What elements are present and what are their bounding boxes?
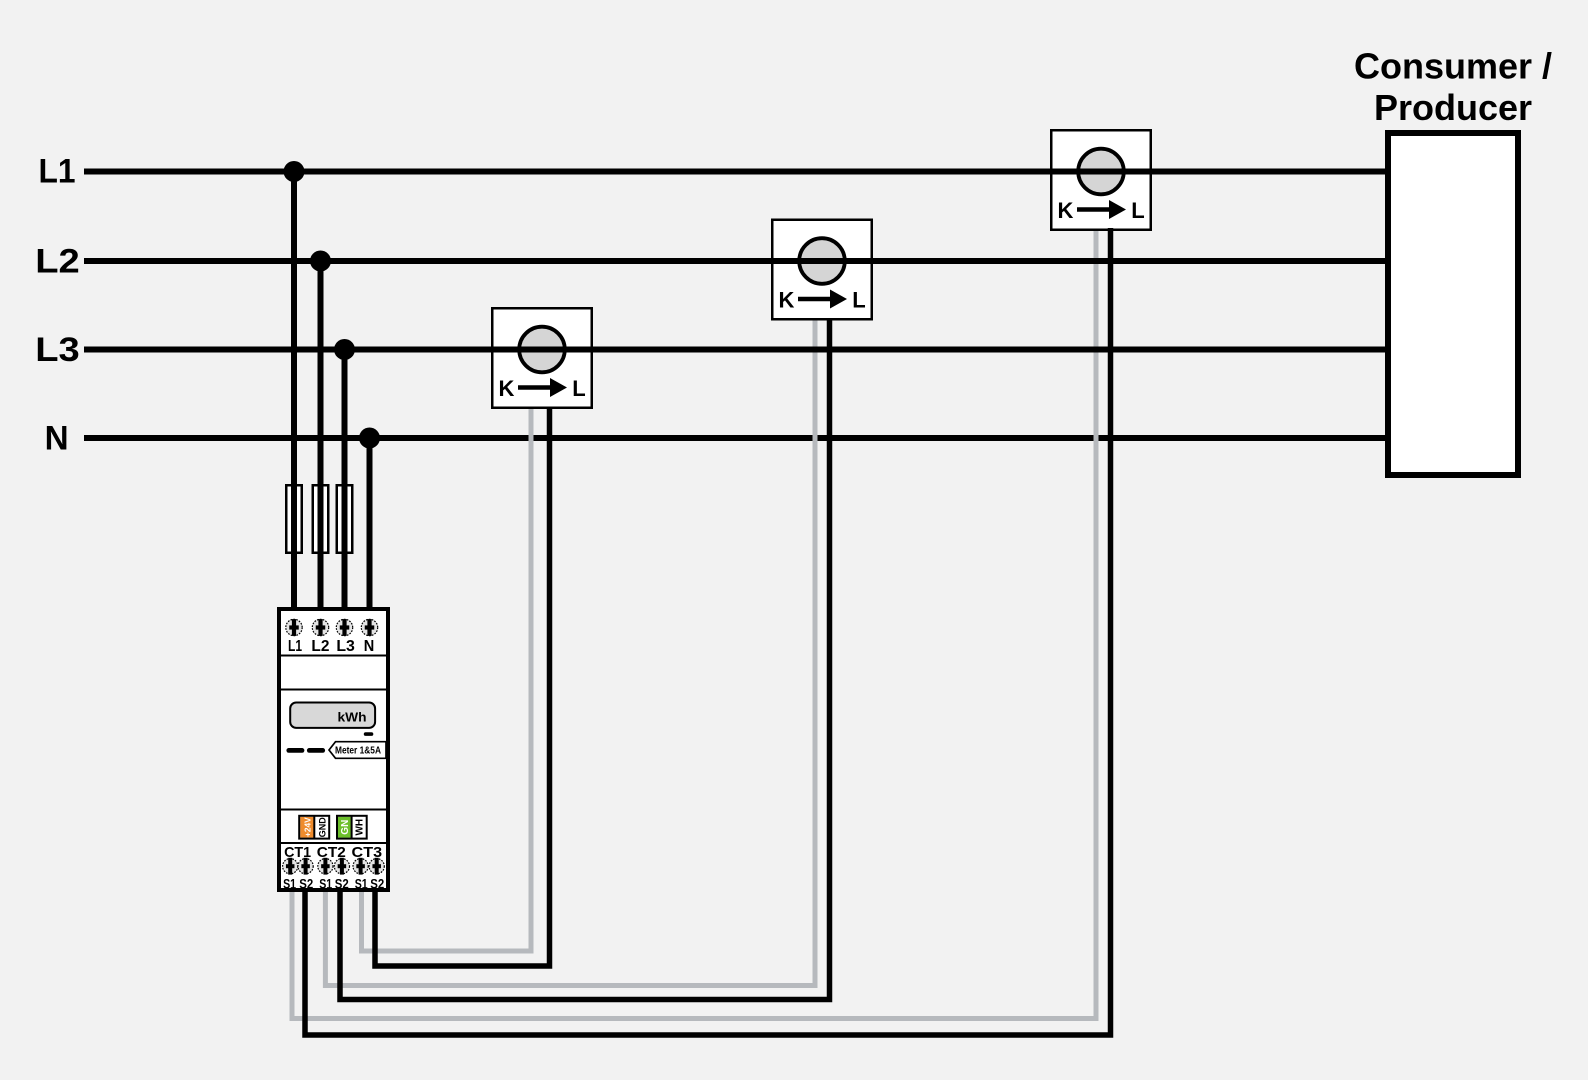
- svg-text:S1: S1: [283, 876, 296, 892]
- terminal L2 screw: [312, 619, 328, 636]
- meter divider 2: [281, 689, 388, 691]
- terminal CT1 S2 screw: [298, 858, 313, 875]
- svg-text:Consumer /: Consumer /: [1354, 46, 1552, 87]
- wire N: [84, 435, 1390, 441]
- svg-text:WH: WH: [355, 819, 366, 836]
- svg-text:S2: S2: [370, 876, 384, 892]
- svg-text:L1: L1: [39, 153, 76, 191]
- svg-text:L2: L2: [311, 638, 329, 655]
- CT1 K-L polarity marking: [1058, 198, 1145, 223]
- terminal CT2 S1 screw: [318, 858, 333, 875]
- kWh display: [290, 703, 375, 728]
- wire CT2 S2 secondary (black): [340, 318, 830, 1000]
- svg-text:N: N: [45, 420, 69, 458]
- Meter 1&5A flag: [329, 742, 386, 759]
- fuse F3 on L3 feed: [337, 485, 353, 553]
- wire CT3 S2 secondary (black): [375, 407, 550, 966]
- meter divider 4: [281, 842, 388, 844]
- wire CT1 S1 secondary (gray): [292, 230, 1096, 1019]
- node N junction: [359, 428, 380, 449]
- wire L3 feed to meter: [342, 350, 348, 612]
- svg-text:Producer: Producer: [1374, 87, 1532, 128]
- svg-text:L3: L3: [336, 638, 355, 655]
- svg-text:N: N: [364, 638, 375, 655]
- transformer CT1 box on L1: [1051, 130, 1151, 230]
- svg-text:K: K: [1058, 198, 1074, 223]
- CT3 K-L polarity marking: [499, 376, 586, 401]
- node L1 junction: [284, 161, 305, 182]
- wire L1: [84, 169, 1390, 175]
- fuse F1 on L1 feed: [286, 485, 302, 553]
- svg-text:K: K: [499, 376, 515, 401]
- terminal CT1 S1 screw: [283, 858, 298, 875]
- svg-text:S2: S2: [335, 876, 349, 892]
- terminal CT3 S2 screw: [369, 858, 384, 875]
- svg-text:L1: L1: [288, 638, 302, 655]
- wire L1 feed to meter: [291, 172, 297, 612]
- svg-text:L3: L3: [35, 331, 80, 369]
- CT2 K-L polarity marking: [779, 288, 866, 313]
- consumer/producer load box: [1388, 133, 1518, 475]
- wire CT3 S1 secondary (gray): [362, 407, 532, 951]
- svg-text:GN: GN: [340, 820, 351, 835]
- meter divider 1: [281, 655, 388, 657]
- meter dash 2: [307, 748, 325, 753]
- meter body: [279, 609, 388, 890]
- wire L2 feed to meter: [318, 261, 324, 611]
- label Consumer / Producer: [1354, 46, 1552, 129]
- connector GN/WH: [337, 816, 367, 839]
- svg-text:S2: S2: [299, 876, 313, 892]
- svg-text:S1: S1: [355, 876, 368, 892]
- display indicator dash: [364, 732, 374, 736]
- svg-text:L: L: [1131, 198, 1144, 223]
- connector +24V/GND: [299, 816, 329, 839]
- wire CT2 S1 secondary (gray): [325, 318, 815, 986]
- svg-text:L2: L2: [35, 243, 80, 281]
- energy meter U1: [279, 609, 388, 892]
- wire CT1 S2 secondary (black): [305, 228, 1111, 1035]
- meter dash 1: [286, 748, 304, 753]
- wire L3: [84, 347, 1390, 353]
- svg-text:L: L: [852, 288, 865, 313]
- terminal CT3 S1 screw: [353, 858, 368, 875]
- svg-text:kWh: kWh: [338, 710, 367, 725]
- terminal L1 screw: [286, 619, 302, 636]
- terminal N screw: [361, 619, 377, 636]
- svg-text:K: K: [779, 288, 795, 313]
- node L2 junction: [310, 251, 331, 272]
- fuse F2 on L2 feed: [313, 485, 329, 553]
- terminal CT2 S2 screw: [334, 858, 349, 875]
- meter divider 3: [281, 809, 388, 811]
- transformer CT3 box on L3: [492, 308, 592, 408]
- svg-text:S1: S1: [319, 876, 332, 892]
- svg-text:GND: GND: [317, 817, 327, 838]
- svg-text:L: L: [572, 376, 585, 401]
- node L3 junction: [334, 339, 355, 360]
- terminal L3 screw: [336, 619, 352, 636]
- wire N feed to meter: [367, 438, 373, 611]
- wire L2: [84, 258, 1390, 264]
- svg-text:+24V: +24V: [302, 817, 312, 837]
- transformer CT2 box on L2: [772, 220, 872, 320]
- svg-text:Meter 1&5A: Meter 1&5A: [335, 745, 381, 757]
